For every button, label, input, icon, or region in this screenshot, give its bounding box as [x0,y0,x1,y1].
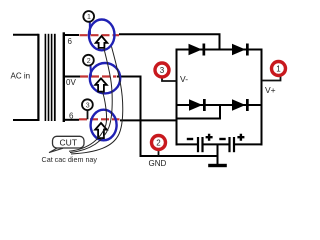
node 1 red stub [262,76,281,81]
red circle 3 [155,63,169,77]
red circle 1 [272,62,286,76]
svg-text:2: 2 [156,139,161,148]
svg-text:CUT: CUT [60,138,77,148]
wire primary bottom [13,119,39,121]
node circle 1 [83,11,94,22]
wire secondary top tap left [65,34,79,36]
ground wire down [217,144,219,164]
wire top tap down to bridge [219,34,221,50]
bridge top row wire [177,49,262,51]
wire bottom mid to left vertical [177,118,222,120]
bridge bottom row wire [177,104,262,106]
node circle 1 stub [89,21,91,35]
wire cut 3 red dashed [79,118,120,120]
capacitor C1 plates [197,137,199,152]
svg-text:0V: 0V [66,78,76,87]
wire secondary mid tap left [65,76,80,78]
node 2 red stub [158,150,160,157]
bridge left vertical [176,49,178,146]
wire secondary mid tap right [117,76,142,78]
svg-text:3: 3 [160,66,165,75]
svg-text:AC in: AC in [11,72,31,81]
arrow cut 3 [95,123,107,138]
diode D3 (bottom-left) [189,99,203,110]
bridge right vertical V+ [261,49,263,146]
wire primary top [13,34,39,36]
transformer core line 4 [54,34,56,121]
blue circle cut 3 [91,110,117,141]
transformer core line 2 [48,34,50,121]
CUT callout bubble [49,148,63,153]
svg-text:V+: V+ [265,85,276,95]
capacitor C1 minus sign [187,138,193,140]
transformer T1 secondary winding bar [63,32,65,122]
diode D1 (top-left) [189,44,203,55]
arrow cut 2 [95,78,107,91]
wire secondary bottom tap left [65,119,79,121]
transformer core line 1 [45,34,47,121]
callout line to circle 1 [71,47,123,155]
svg-text:1: 1 [276,65,281,74]
svg-text:2: 2 [87,58,91,65]
capacitor row wire left [176,143,198,145]
callout line to arrow 1 [70,48,112,153]
callout line to arrow 2 [69,92,107,152]
svg-text:1: 1 [87,14,91,21]
wire cut 2 red dashed [80,75,116,77]
capacitor C1 plus sign [206,134,213,141]
arrow cut 1 [96,36,108,48]
wire 0V to ground node [141,155,219,157]
node 3 red stub [162,77,177,81]
node circle 3 stub [87,109,89,119]
node circle 2 stub [90,65,93,77]
wire secondary bottom tap right [120,119,176,121]
diode D2 (top-right) [232,44,246,55]
node circle 2 [83,55,94,66]
wire 0V down [140,76,142,158]
wire bottom mid drop [219,104,221,119]
svg-text:V-: V- [180,74,188,84]
transformer core line 3 [51,34,53,121]
transformer T1 primary winding bar [37,34,39,121]
capacitor mid wire [204,143,230,145]
blue circle cut 1 [89,20,115,51]
capacitor C2 minus sign [219,138,225,140]
svg-text:6: 6 [68,37,73,46]
red circle 2 [152,136,166,150]
diode D4 (bottom-right) [232,99,246,110]
wire secondary top tap right [119,33,221,35]
wire cut 1 red dashed [80,34,120,36]
ground symbol [208,164,227,167]
capacitor C2 plates [228,137,230,152]
svg-text:3: 3 [86,102,90,109]
svg-text:Cat cac diem nay: Cat cac diem nay [42,155,98,164]
svg-text:GND: GND [149,159,167,168]
node circle 3 [82,99,93,110]
capacitor row wire right [235,143,263,145]
capacitor C2 plus sign [237,134,244,141]
blue circle cut 2 [90,63,120,93]
